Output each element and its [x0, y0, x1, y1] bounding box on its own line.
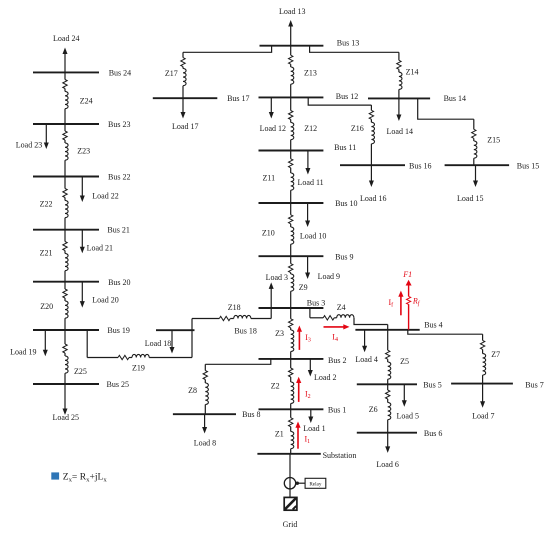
svg-text:Load 10: Load 10 [300, 232, 326, 241]
svg-text:Z13: Z13 [304, 69, 317, 78]
impedance Z10 (R+jL) [289, 203, 294, 256]
grid source (hatched box) [284, 497, 297, 510]
svg-text:Bus 11: Bus 11 [334, 143, 356, 152]
svg-text:Bus 15: Bus 15 [517, 161, 539, 170]
load Load 17 arrow [181, 98, 186, 118]
svg-text:Load 1: Load 1 [303, 424, 325, 433]
label Load 22 [92, 191, 118, 200]
label Load 11 [298, 178, 324, 187]
label Rf [412, 297, 421, 308]
svg-text:Bus 7: Bus 7 [525, 380, 543, 389]
load Load 5 arrow [402, 384, 407, 406]
impedance Z1 (R+jL) [289, 409, 294, 454]
label I2 [305, 390, 311, 401]
label Z22 [40, 200, 53, 209]
svg-text:Load 5: Load 5 [397, 411, 419, 420]
label Load 18 [145, 339, 171, 348]
load Load 9 arrow [305, 256, 310, 279]
bus Bus 17 [153, 94, 250, 103]
svg-text:Z7: Z7 [491, 350, 500, 359]
bus Bus 11 [259, 143, 357, 152]
svg-text:Load 14: Load 14 [387, 127, 413, 136]
svg-text:Zx= Rx+jLx: Zx= Rx+jLx [63, 471, 108, 483]
wire Bus 13 to Z14 [310, 46, 399, 53]
label Z6 [369, 405, 378, 414]
label Z2 [271, 381, 280, 390]
impedance Z12 (R+jL) [289, 97, 294, 150]
svg-text:Z19: Z19 [132, 364, 145, 373]
bus Bus 8 [173, 410, 261, 419]
svg-text:Bus 2: Bus 2 [328, 356, 346, 365]
svg-text:Load 21: Load 21 [87, 243, 113, 252]
label Z7 [491, 350, 500, 359]
label Z8 [188, 386, 197, 395]
svg-text:Bus 6: Bus 6 [424, 429, 442, 438]
bus Bus 10 [259, 199, 358, 208]
label F1 [402, 270, 412, 279]
label Z17 [165, 69, 178, 78]
impedance Z9 (R+jL) [289, 256, 294, 308]
load Load 18 arrow [170, 330, 175, 353]
label Load 17 [172, 122, 198, 131]
load Load 20 arrow [80, 282, 85, 308]
label Load 19 [10, 348, 36, 357]
svg-text:Bus 22: Bus 22 [108, 173, 130, 182]
svg-text:Z1: Z1 [275, 429, 284, 438]
svg-text:Bus 5: Bus 5 [423, 380, 441, 389]
svg-text:Z3: Z3 [275, 329, 284, 338]
svg-text:Bus 19: Bus 19 [107, 326, 129, 335]
label Load 10 [300, 232, 326, 241]
svg-text:Z22: Z22 [40, 200, 53, 209]
svg-text:Bus 3: Bus 3 [307, 299, 325, 308]
label If [389, 298, 394, 309]
svg-text:Bus 9: Bus 9 [335, 253, 353, 262]
bus Bus 25 [33, 380, 129, 389]
label Load 2 [314, 373, 336, 382]
load Load 24 arrow [63, 48, 68, 73]
load Load 1 arrow [308, 409, 313, 423]
current arrow I1 [295, 422, 300, 449]
svg-text:Load 17: Load 17 [172, 122, 198, 131]
wire Bus 2 to Z8 [205, 359, 270, 364]
svg-text:Bus 14: Bus 14 [444, 94, 466, 103]
bus Bus 20 [33, 278, 131, 287]
impedance Z14 (R+jL) [397, 52, 402, 98]
bus Bus 18 [156, 327, 257, 336]
label Load 23 [16, 141, 42, 150]
label Z11 [263, 174, 276, 183]
impedance Z22 (R+jL) [63, 177, 68, 230]
impedance Z16 (R+jL) [369, 105, 374, 165]
load Load 3 arrow [269, 282, 274, 308]
svg-text:Load 7: Load 7 [472, 412, 494, 421]
bus Bus 7 [451, 380, 544, 389]
label Load 9 [318, 272, 340, 281]
fault current arrow If [398, 291, 403, 316]
load Load 4 arrow [362, 330, 367, 352]
label Z20 [40, 302, 53, 311]
label Z4 [337, 303, 346, 312]
label Z14 [406, 67, 419, 76]
impedance Z3 (R+jL) [289, 308, 294, 359]
relay box [305, 478, 326, 488]
label Load 20 [92, 296, 118, 305]
label Load 15 [457, 194, 483, 203]
svg-text:Bus 16: Bus 16 [409, 161, 431, 170]
bus Bus 13 [260, 38, 360, 47]
load Load 19 arrow [43, 330, 48, 356]
impedance Z17 (R+jL) [181, 52, 186, 98]
label I4 [332, 333, 338, 344]
svg-text:Bus 1: Bus 1 [328, 406, 346, 415]
svg-text:Bus 18: Bus 18 [234, 327, 256, 336]
svg-text:Load 15: Load 15 [457, 194, 483, 203]
load Load 2 arrow [308, 359, 313, 377]
bus Substation [257, 451, 356, 460]
svg-text:Z6: Z6 [369, 405, 378, 414]
label Load 4 [355, 355, 377, 364]
relay connection wire with junction dot [296, 482, 306, 485]
bus Bus 15 [445, 161, 540, 170]
svg-text:Load 20: Load 20 [92, 296, 118, 305]
impedance Z2 (R+jL) [289, 359, 294, 409]
bus Bus 6 [357, 429, 443, 438]
bus Bus 19 [33, 326, 130, 335]
label Load 3 [266, 273, 288, 282]
bus Bus 5 [357, 380, 442, 389]
svg-text:Z11: Z11 [263, 174, 276, 183]
svg-text:Z23: Z23 [77, 147, 90, 156]
load Load 10 arrow [305, 203, 310, 227]
svg-text:Grid: Grid [283, 520, 298, 529]
impedance Z11 (R+jL) [289, 151, 294, 204]
impedance Z19 (R+jL) [87, 354, 192, 359]
load Load 6 arrow [385, 433, 390, 453]
impedance Z23 (R+jL) [63, 124, 68, 177]
svg-text:Load 4: Load 4 [355, 355, 377, 364]
svg-text:F1: F1 [402, 270, 412, 279]
svg-text:Load 16: Load 16 [360, 194, 386, 203]
impedance Z18 (R+jL) [192, 315, 271, 320]
label Load 13 [279, 7, 305, 16]
load Load 25 arrow [63, 384, 68, 415]
svg-text:Bus 8: Bus 8 [242, 410, 260, 419]
svg-text:Load 11: Load 11 [298, 178, 324, 187]
bus Bus 4 [355, 321, 442, 330]
label Load 16 [360, 194, 386, 203]
wire Bus 3 down to Z18 [270, 308, 272, 319]
svg-text:Load 9: Load 9 [318, 272, 340, 281]
load Load 14 arrow [396, 98, 401, 121]
svg-text:Load 3: Load 3 [266, 273, 288, 282]
label Z16 [351, 124, 364, 133]
label Grid [283, 520, 298, 529]
label Z25 [74, 367, 87, 376]
load Load 15 arrow [473, 165, 478, 187]
svg-text:Z9: Z9 [299, 283, 308, 292]
svg-text:Z21: Z21 [40, 248, 53, 257]
wire Bus 14 to Z15 [418, 98, 474, 119]
impedance Z15 (R+jL) [472, 119, 477, 165]
fault F1 arrow with fault resistance Rf [406, 280, 412, 330]
current arrow I4 [324, 324, 350, 329]
wire Bus 3 down to Z4 [309, 308, 311, 318]
label Load 5 [397, 411, 419, 420]
svg-text:Z24: Z24 [80, 96, 93, 105]
svg-text:Z15: Z15 [487, 136, 500, 145]
svg-text:Load 2: Load 2 [314, 373, 336, 382]
svg-text:Z18: Z18 [228, 303, 241, 312]
svg-text:Load 8: Load 8 [194, 439, 216, 448]
label Load 25 [53, 413, 79, 422]
CT circle at relay measurement point [284, 478, 295, 489]
svg-text:Load 25: Load 25 [53, 413, 79, 422]
svg-text:Bus 25: Bus 25 [107, 380, 129, 389]
label Z10 [262, 229, 275, 238]
svg-text:Z25: Z25 [74, 367, 87, 376]
impedance Z8 (R+jL) [203, 364, 208, 414]
load Load 21 arrow [80, 230, 85, 254]
svg-text:Bus 10: Bus 10 [335, 199, 357, 208]
svg-text:Z2: Z2 [271, 381, 280, 390]
svg-text:Load 12: Load 12 [260, 124, 286, 133]
impedance Z24 (R+jL) [63, 72, 68, 124]
load Load 22 arrow [80, 177, 85, 203]
wire Z18 to Z19 [191, 319, 193, 358]
bus Bus 9 [259, 253, 354, 262]
impedance Z7 (R+jL) [480, 334, 485, 383]
label Load 12 [260, 124, 286, 133]
label Load 21 [87, 243, 113, 252]
load Load 8 arrow [202, 414, 207, 433]
label Z3 [275, 329, 284, 338]
svg-text:Bus 17: Bus 17 [227, 94, 249, 103]
label Z23 [77, 147, 90, 156]
svg-text:Z20: Z20 [40, 302, 53, 311]
label Z1 [275, 429, 284, 438]
svg-text:Load 19: Load 19 [10, 348, 36, 357]
legend impedance color key [51, 471, 107, 483]
bus Bus 21 [33, 226, 130, 235]
svg-text:Load 24: Load 24 [53, 34, 79, 43]
svg-text:Substation: Substation [323, 451, 357, 460]
label Z12 [304, 124, 317, 133]
load Load 23 arrow [44, 124, 49, 149]
load Load 13 arrow [288, 20, 293, 46]
label Load 6 [376, 460, 398, 469]
svg-text:Z14: Z14 [406, 67, 419, 76]
current arrow I2 [296, 377, 301, 402]
wire Bus 13 to Z17 [183, 46, 272, 53]
impedance Z5 (R+jL) [386, 325, 391, 385]
svg-text:If: If [389, 298, 394, 309]
bus Bus 22 [33, 173, 130, 182]
svg-text:Z8: Z8 [188, 386, 197, 395]
bus Bus 3 [259, 299, 326, 309]
label Z18 [228, 303, 241, 312]
wire Substation to Grid [289, 454, 291, 498]
load Load 11 arrow [305, 151, 310, 175]
svg-text:Z12: Z12 [304, 124, 317, 133]
label Z15 [487, 136, 500, 145]
label Load 24 [53, 34, 79, 43]
label Load 14 [387, 127, 413, 136]
label Z24 [80, 96, 93, 105]
impedance Z21 (R+jL) [63, 230, 68, 282]
impedance Z20 (R+jL) [63, 282, 68, 330]
svg-text:Bus 20: Bus 20 [108, 278, 130, 287]
bus Bus 1 [259, 406, 347, 415]
svg-text:Bus 23: Bus 23 [108, 120, 130, 129]
svg-text:Load 6: Load 6 [376, 460, 398, 469]
load Load 12 arrow [269, 97, 274, 118]
load Load 16 arrow [369, 165, 374, 187]
svg-text:Z16: Z16 [351, 124, 364, 133]
label Z5 [400, 357, 409, 366]
label Z19 [132, 364, 145, 373]
svg-text:Load 13: Load 13 [279, 7, 305, 16]
svg-text:I4: I4 [332, 333, 338, 344]
bus Bus 2 [259, 356, 347, 365]
svg-text:I2: I2 [305, 390, 311, 401]
svg-text:Bus 13: Bus 13 [337, 38, 359, 47]
bus Bus 24 [33, 69, 131, 78]
impedance Z6 (R+jL) [386, 384, 391, 432]
label I3 [305, 333, 311, 344]
current arrow I3 [297, 326, 302, 350]
label Load 7 [472, 412, 494, 421]
svg-text:I3: I3 [305, 333, 311, 344]
label Z21 [40, 248, 53, 257]
load Load 7 arrow [480, 384, 485, 408]
bus Bus 23 [33, 120, 130, 129]
wire Bus 12 to Z16 [308, 97, 371, 105]
svg-text:Rf: Rf [412, 297, 421, 308]
svg-text:Bus 12: Bus 12 [336, 92, 358, 101]
svg-text:Z17: Z17 [165, 69, 178, 78]
wire Z19 up to Bus 19 [86, 330, 88, 358]
wire Bus 4 to Z7 [408, 330, 483, 334]
bus Bus 16 [340, 161, 431, 170]
svg-text:Bus 21: Bus 21 [107, 226, 129, 235]
wire Z4 to Bus 4 [354, 318, 388, 325]
label I1 [305, 435, 311, 446]
svg-text:Bus 24: Bus 24 [109, 69, 131, 78]
svg-text:Z4: Z4 [337, 303, 346, 312]
svg-text:Bus 4: Bus 4 [424, 321, 442, 330]
svg-text:Load 23: Load 23 [16, 141, 42, 150]
svg-text:Load 18: Load 18 [145, 339, 171, 348]
svg-text:I1: I1 [305, 435, 311, 446]
svg-text:Z10: Z10 [262, 229, 275, 238]
label Z9 [299, 283, 308, 292]
svg-text:Relay: Relay [309, 481, 322, 487]
label Load 1 [303, 424, 325, 433]
impedance Z13 (R+jL) [289, 46, 294, 98]
impedance Z4 (R+jL) [310, 315, 354, 320]
svg-text:Z5: Z5 [400, 357, 409, 366]
impedance Z25 (R+jL) [63, 330, 68, 384]
svg-text:Load 22: Load 22 [92, 191, 118, 200]
label Z13 [304, 69, 317, 78]
bus Bus 14 [368, 94, 466, 103]
label Load 8 [194, 439, 216, 448]
bus Bus 12 [259, 92, 359, 101]
